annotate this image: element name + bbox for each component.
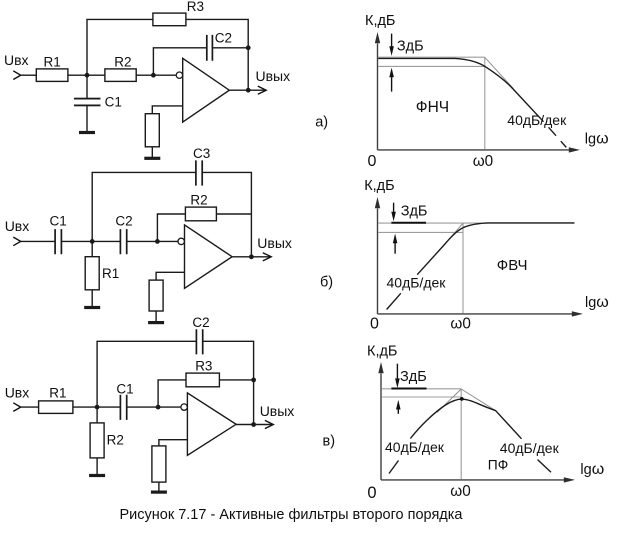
svg-text:Uвых: Uвых: [256, 68, 291, 84]
svg-text:40дБ/дек: 40дБ/дек: [507, 112, 567, 128]
svg-text:Uвх: Uвх: [5, 218, 30, 234]
svg-text:К,дБ: К,дБ: [364, 178, 394, 194]
svg-text:ФНЧ: ФНЧ: [416, 99, 449, 116]
svg-text:а): а): [315, 115, 328, 131]
svg-text:ω0: ω0: [450, 316, 470, 333]
svg-text:C2: C2: [215, 31, 232, 46]
svg-text:0: 0: [367, 484, 376, 502]
svg-text:R2: R2: [190, 192, 207, 207]
svg-text:C1: C1: [50, 213, 67, 228]
svg-text:C3: C3: [193, 146, 210, 161]
svg-text:R1: R1: [102, 266, 119, 281]
svg-text:R1: R1: [49, 385, 66, 400]
svg-text:ЗдБ: ЗдБ: [400, 369, 427, 385]
svg-text:б): б): [320, 275, 333, 291]
svg-text:lgω: lgω: [585, 131, 609, 148]
svg-text:ЗдБ: ЗдБ: [401, 204, 428, 220]
svg-text:К,дБ: К,дБ: [367, 344, 397, 360]
svg-text:40дБ/дек: 40дБ/дек: [385, 439, 445, 455]
svg-text:R3: R3: [195, 359, 212, 374]
svg-text:ω0: ω0: [473, 153, 493, 170]
svg-text:ПФ: ПФ: [488, 458, 508, 473]
svg-text:R3: R3: [187, 0, 204, 14]
svg-text:R2: R2: [114, 54, 131, 69]
svg-text:Рисунок 7.17 - Активные фильтр: Рисунок 7.17 - Активные фильтры второго …: [119, 507, 463, 523]
svg-text:0: 0: [370, 315, 379, 332]
svg-text:К,дБ: К,дБ: [365, 13, 395, 29]
svg-text:C1: C1: [116, 381, 133, 396]
svg-text:ω0: ω0: [450, 483, 470, 500]
svg-text:в): в): [323, 434, 336, 450]
svg-text:ЗдБ: ЗдБ: [397, 39, 424, 55]
svg-text:Uвх: Uвх: [5, 384, 30, 400]
svg-text:C2: C2: [115, 213, 132, 228]
svg-text:Uвх: Uвх: [4, 52, 29, 68]
svg-text:40дБ/дек: 40дБ/дек: [500, 440, 560, 456]
svg-text:40дБ/дек: 40дБ/дек: [387, 274, 447, 290]
svg-text:Uвых: Uвых: [260, 403, 295, 419]
svg-text:C2: C2: [192, 315, 209, 330]
svg-text:lgω: lgω: [580, 461, 604, 478]
svg-text:R2: R2: [107, 433, 124, 448]
svg-text:C1: C1: [105, 95, 122, 110]
svg-text:R1: R1: [44, 54, 61, 69]
svg-text:0: 0: [368, 153, 377, 170]
svg-text:Uвых: Uвых: [257, 235, 292, 251]
svg-text:lgω: lgω: [585, 294, 609, 311]
svg-text:ФВЧ: ФВЧ: [497, 257, 528, 274]
